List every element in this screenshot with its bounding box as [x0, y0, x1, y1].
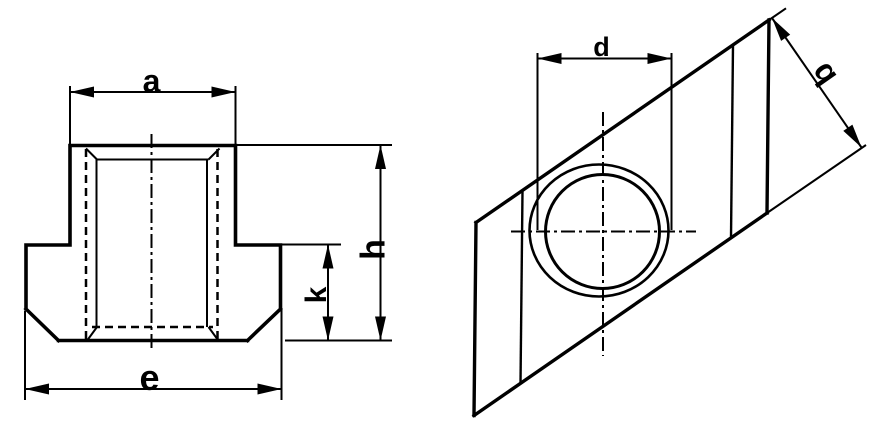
bottom chamfer hidden edge [92, 326, 213, 329]
dimension k line [327, 245, 329, 341]
dimension k arrow bottom [323, 317, 334, 341]
dimension h line [380, 145, 382, 341]
dimension e arrow left [25, 384, 49, 395]
svg-text:k: k [300, 286, 333, 303]
dimension d arrow left [538, 53, 562, 64]
top chamfer of threaded hole [86, 149, 220, 160]
thread major diameter hidden line right [216, 149, 219, 339]
dimension b line [772, 18, 862, 148]
dimension b arrow bottom [843, 125, 861, 148]
svg-text:e: e [139, 357, 159, 398]
dimension d line [538, 58, 672, 60]
top view horizontal centerline [511, 231, 696, 233]
dimension a extension lines [70, 86, 236, 144]
dimension e arrow right [258, 384, 282, 395]
svg-text:h: h [355, 239, 393, 260]
dimension b bottom extension line [767, 145, 866, 213]
top view right internal edge [731, 45, 733, 238]
dimension b top extension line [769, 8, 786, 20]
dimension b arrow top [772, 18, 790, 41]
dimension k extension line [282, 244, 342, 246]
dimension a arrow right [212, 87, 236, 98]
thread major diameter hidden line left [85, 149, 88, 339]
thread major diameter circle [530, 165, 669, 297]
svg-text:d: d [593, 32, 610, 62]
dimension e extension lines [25, 310, 282, 400]
dimension d arrow right [648, 53, 672, 64]
top view parallelogram outline [474, 20, 769, 416]
dimension h top extension line [236, 144, 392, 146]
tap hole right line [206, 160, 208, 328]
top view left internal edge [521, 191, 523, 384]
bottom chamfer of threaded hole [88, 327, 219, 340]
tap hole circle [546, 175, 660, 289]
dimension h arrow bottom [375, 317, 386, 341]
tap hole left line [96, 160, 98, 328]
dimension k arrow top [323, 245, 334, 269]
T-nut front view outline [26, 146, 281, 341]
dimension a arrow left [70, 87, 94, 98]
dimension d extension lines [538, 53, 672, 230]
top view vertical centerline [602, 112, 604, 356]
dimension h arrow top [375, 145, 386, 169]
dimension h bottom extension line [285, 340, 392, 342]
svg-text:a: a [143, 63, 161, 99]
front view vertical centerline [151, 134, 153, 352]
dimension e line [25, 388, 282, 390]
dimension a line [70, 91, 236, 93]
